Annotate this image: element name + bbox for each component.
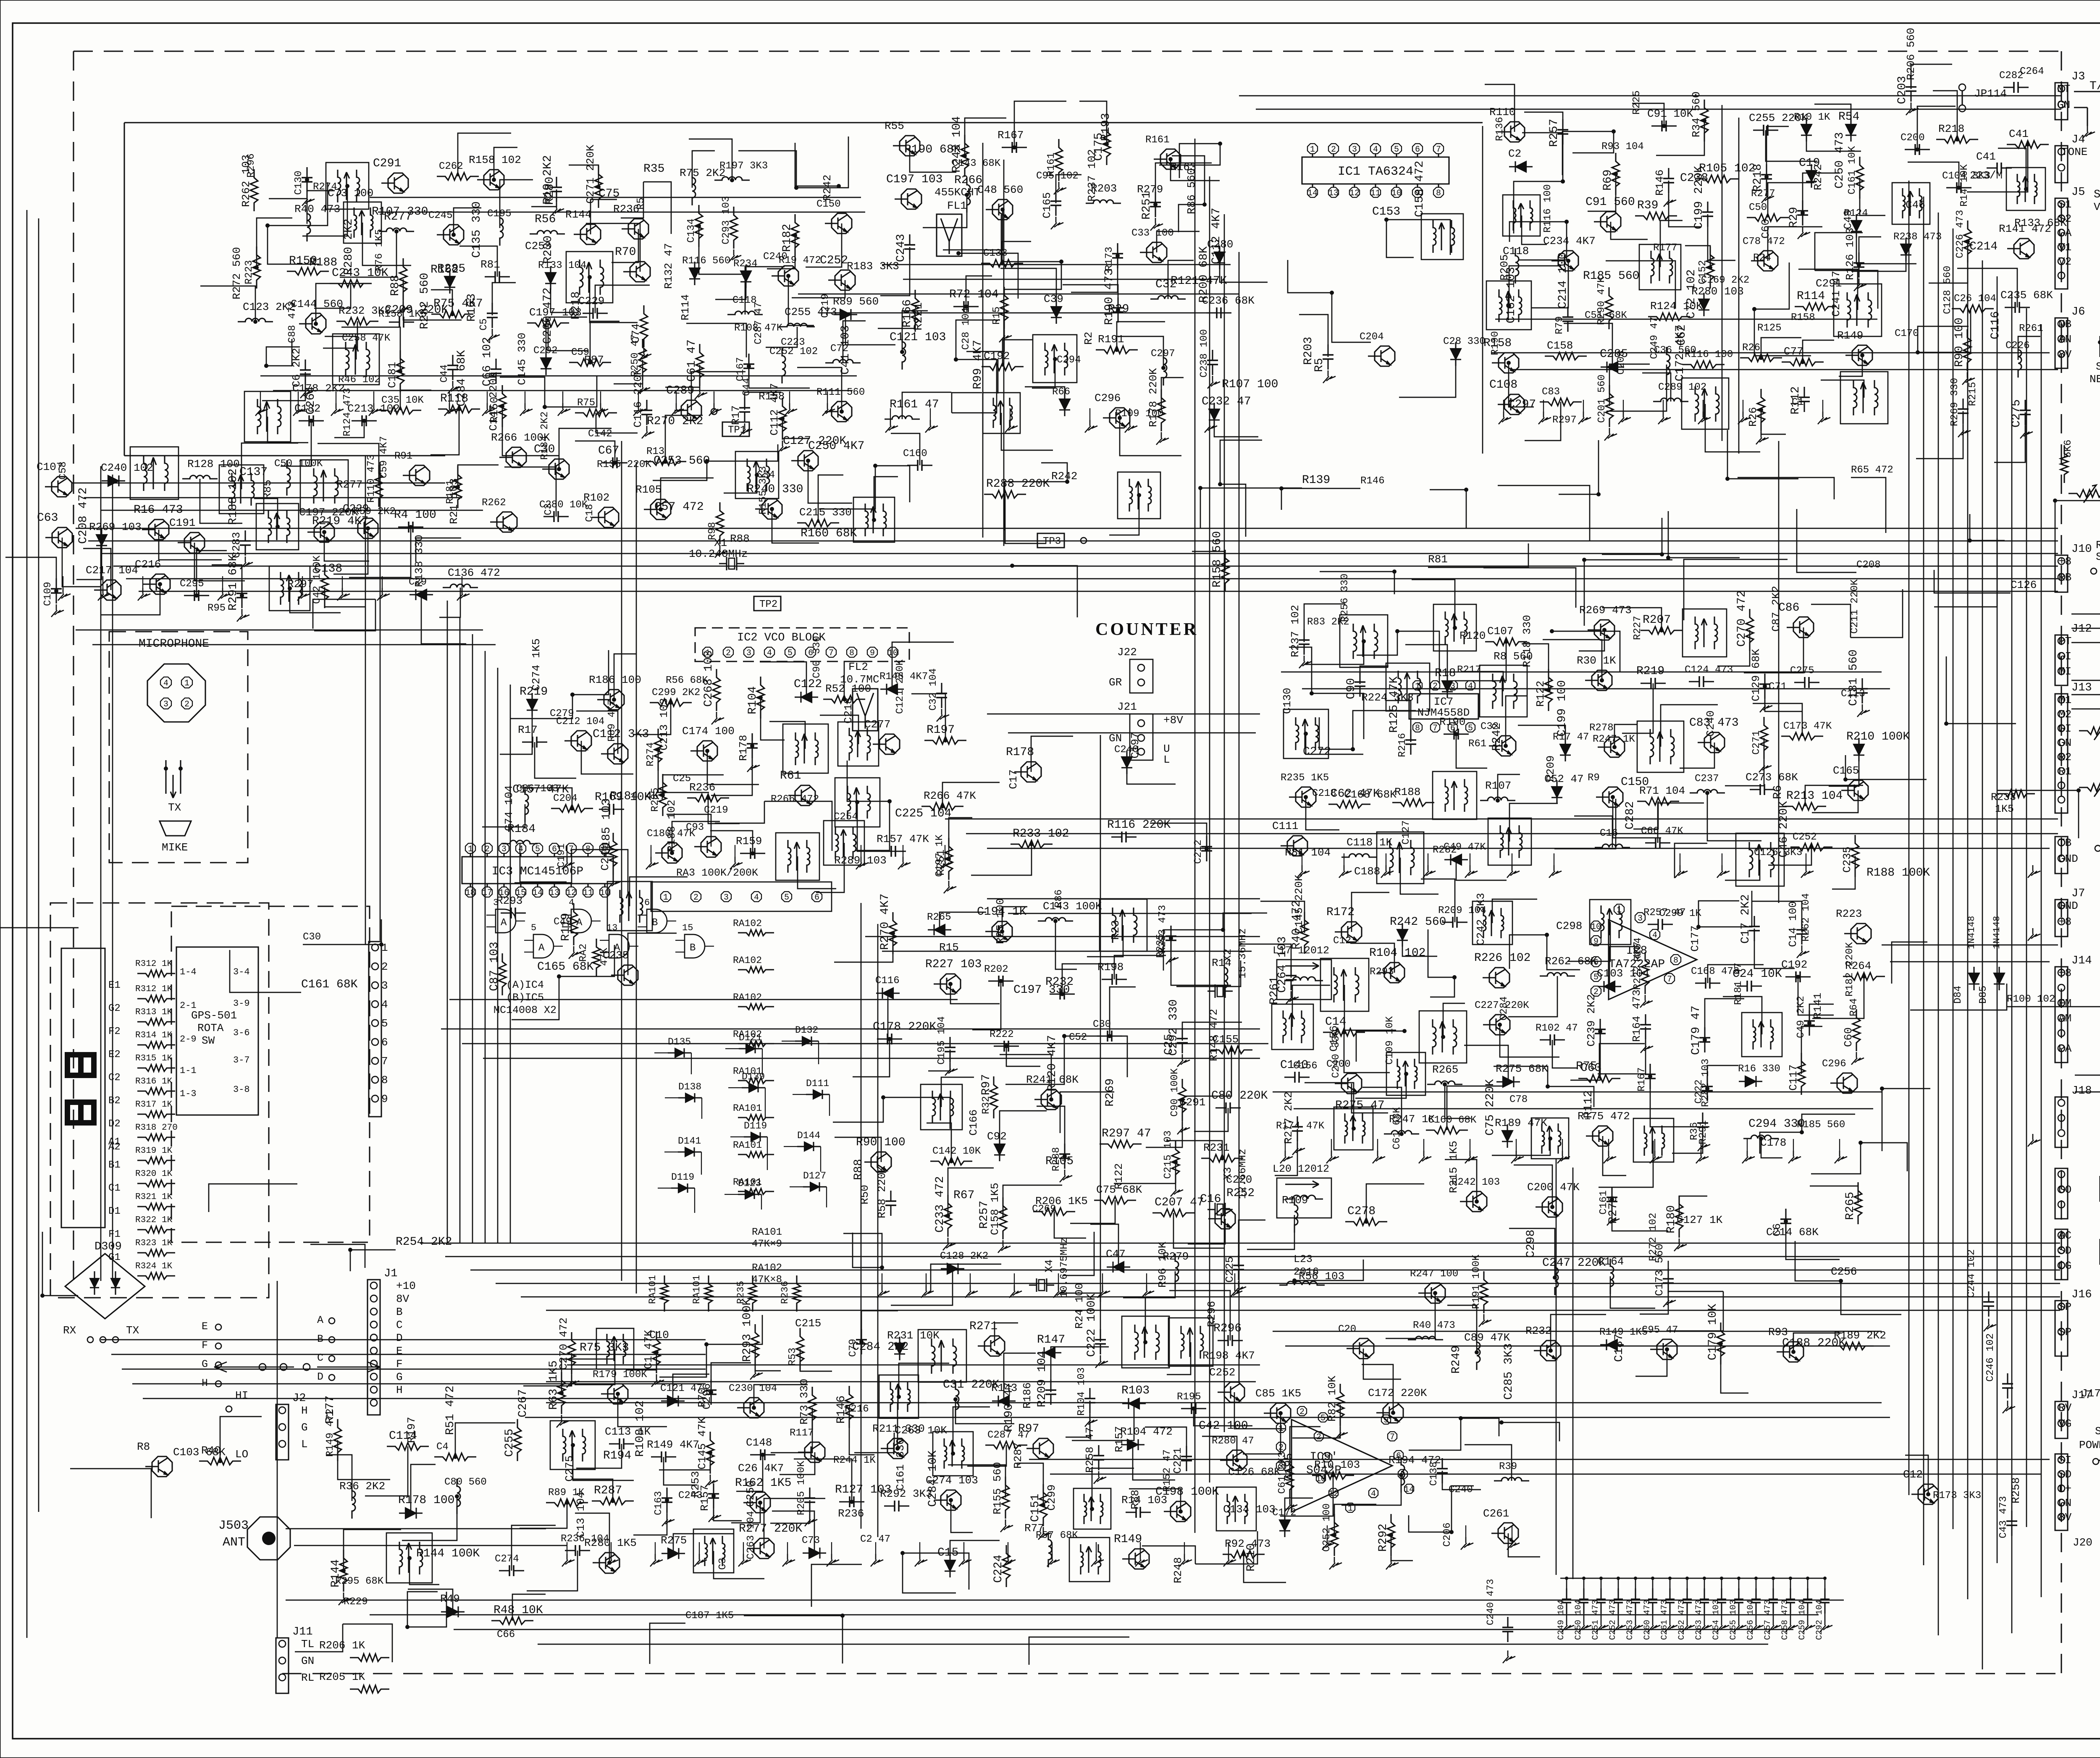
connector J1 lower	[367, 1280, 380, 1415]
pcb outline dashed frame	[73, 50, 2061, 52]
svg-text:R54: R54	[1838, 110, 1859, 123]
svg-text:C112 4K7: C112 4K7	[768, 383, 781, 436]
svg-text:R26: R26	[1742, 342, 1760, 354]
svg-text:3-4: 3-4	[233, 967, 250, 977]
svg-text:C191: C191	[169, 517, 195, 529]
svg-text:C52 47: C52 47	[1544, 773, 1584, 785]
svg-text:C282: C282	[1999, 70, 2024, 81]
svg-text:C78 472: C78 472	[1743, 236, 1785, 247]
svg-text:C158 472: C158 472	[1413, 161, 1426, 217]
svg-text:3: 3	[1638, 914, 1643, 924]
svg-text:R173 3K3: R173 3K3	[1933, 1490, 1981, 1501]
svg-text:C213 103: C213 103	[658, 698, 670, 750]
svg-text:C252 473: C252 473	[1608, 1600, 1618, 1640]
svg-text:C165 68K: C165 68K	[537, 960, 594, 973]
svg-text:C170: C170	[1895, 328, 1919, 339]
svg-text:C128 560: C128 560	[1942, 266, 1953, 314]
svg-text:C158: C158	[1547, 339, 1573, 352]
svg-text:C179 10K: C179 10K	[1706, 1304, 1719, 1360]
svg-text:C28 330: C28 330	[1443, 336, 1486, 347]
svg-text:C179 47: C179 47	[1690, 1005, 1703, 1055]
svg-text:C204: C204	[1360, 331, 1384, 343]
svg-text:J4: J4	[2071, 134, 2085, 146]
svg-text:R293 100K: R293 100K	[741, 1299, 754, 1362]
svg-text:R280 103: R280 103	[1691, 285, 1744, 298]
svg-text:D: D	[396, 1332, 403, 1344]
svg-text:R205 1K: R205 1K	[319, 1671, 365, 1683]
svg-text:8V: 8V	[396, 1293, 409, 1305]
svg-text:R242 560: R242 560	[1390, 916, 1446, 929]
ra3 pin row	[651, 882, 832, 911]
svg-text:C138: C138	[1428, 1462, 1440, 1486]
svg-text:R183 3K3: R183 3K3	[847, 260, 899, 273]
svg-text:R98: R98	[707, 522, 718, 540]
svg-text:10: 10	[888, 648, 898, 658]
svg-text:C207 47: C207 47	[1155, 1196, 1204, 1209]
svg-text:A: A	[576, 917, 583, 929]
connector J13 mike rf gain	[2055, 694, 2068, 813]
svg-text:R158 102: R158 102	[469, 154, 521, 166]
svg-text:D132: D132	[795, 1025, 818, 1036]
svg-text:R63 1K5: R63 1K5	[547, 1360, 560, 1410]
svg-text:2: 2	[1316, 1433, 1321, 1442]
svg-text:C93: C93	[686, 822, 704, 833]
svg-text:C59 4K7: C59 4K7	[378, 436, 390, 478]
svg-text:E: E	[396, 1345, 403, 1357]
svg-text:R312 1K: R312 1K	[135, 984, 173, 994]
svg-text:C29: C29	[409, 577, 427, 588]
svg-text:C252: C252	[1209, 1366, 1235, 1379]
svg-text:R271: R271	[969, 1320, 997, 1333]
svg-text:GPS-501: GPS-501	[191, 1009, 237, 1022]
svg-text:C118 1K: C118 1K	[1347, 836, 1393, 849]
svg-text:R229: R229	[344, 1596, 368, 1608]
svg-text:A: A	[614, 942, 620, 954]
svg-text:R144: R144	[565, 208, 591, 221]
svg-text:C181 560: C181 560	[1847, 650, 1860, 706]
svg-text:C32: C32	[1155, 278, 1176, 291]
svg-text:C214 100: C214 100	[1557, 252, 1570, 309]
svg-text:R285: R285	[437, 262, 465, 276]
svg-text:C32: C32	[1480, 721, 1499, 732]
svg-text:J6: J6	[2071, 306, 2085, 318]
connector J6 NB ANL	[2055, 318, 2068, 368]
svg-text:R236: R236	[613, 203, 639, 215]
svg-text:R320 1K: R320 1K	[135, 1169, 173, 1179]
connector J14 FM AM PA	[2055, 967, 2068, 1063]
svg-text:C299: C299	[1045, 1485, 1058, 1511]
svg-text:5: 5	[381, 1017, 388, 1030]
svg-text:D127: D127	[803, 1170, 826, 1181]
svg-text:C77: C77	[1784, 345, 1803, 358]
svg-text:6: 6	[814, 893, 819, 903]
svg-text:12: 12	[1349, 189, 1360, 198]
svg-text:R292 3K3: R292 3K3	[880, 1488, 932, 1500]
svg-text:R269 103: R269 103	[89, 521, 142, 533]
connector EXT SP jack	[2055, 1229, 2068, 1280]
svg-text:1: 1	[184, 679, 189, 688]
svg-text:10: 10	[1391, 189, 1402, 198]
svg-text:C187 1K5: C187 1K5	[685, 1610, 734, 1622]
svg-text:7: 7	[1436, 145, 1441, 155]
EPT interconnect wires	[2075, 1032, 2100, 1142]
svg-text:5: 5	[1468, 724, 1473, 733]
svg-text:R159: R159	[736, 835, 762, 848]
svg-text:C67: C67	[598, 444, 619, 457]
svg-text:C249 104: C249 104	[1557, 1600, 1566, 1640]
svg-text:C232 47: C232 47	[1202, 395, 1251, 408]
svg-text:R144 100K: R144 100K	[416, 1547, 480, 1560]
circuit fill block 1181	[1903, 1455, 2022, 1538]
circuit fill block 124	[650, 1610, 1129, 1665]
svg-text:3: 3	[1352, 145, 1357, 155]
7seg display dashed enclosure	[50, 903, 269, 1298]
svg-text:C240 473: C240 473	[1485, 1579, 1496, 1625]
wire buses extra light bands	[76, 197, 1890, 1382]
svg-text:1N4148: 1N4148	[1992, 916, 2002, 949]
svg-text:FL2: FL2	[848, 661, 868, 673]
svg-text:R313 1K: R313 1K	[135, 1008, 173, 1017]
svg-text:C39: C39	[1044, 293, 1063, 305]
svg-text:R238 473: R238 473	[1893, 231, 1942, 243]
svg-text:R50: R50	[858, 1185, 871, 1204]
svg-text:R162 1K5: R162 1K5	[735, 1477, 791, 1490]
svg-text:15: 15	[682, 923, 693, 933]
svg-text:C60: C60	[1842, 1027, 1855, 1047]
svg-text:D119: D119	[671, 1172, 694, 1183]
svg-text:R125: R125	[1757, 323, 1782, 334]
svg-text:R213 104: R213 104	[1786, 790, 1843, 803]
svg-text:C155: C155	[1213, 1033, 1239, 1046]
svg-text:R321 1K: R321 1K	[135, 1192, 173, 1202]
svg-text:2: 2	[1433, 682, 1438, 691]
svg-text:R66: R66	[1052, 386, 1070, 398]
wire bus lower band	[286, 1600, 1844, 1644]
svg-text:C: C	[396, 1319, 403, 1331]
svg-text:R280 1K5: R280 1K5	[584, 1537, 637, 1549]
svg-text:C144 560: C144 560	[291, 298, 343, 310]
svg-text:GN: GN	[2058, 1497, 2071, 1509]
svg-text:C13 104: C13 104	[575, 1492, 587, 1538]
svg-text:5: 5	[1320, 1414, 1326, 1423]
svg-text:2: 2	[485, 845, 490, 854]
svg-text:ROTA: ROTA	[197, 1022, 224, 1034]
svg-text:SP: SP	[2058, 1326, 2071, 1338]
svg-text:C244 102: C244 102	[1966, 1249, 1977, 1298]
svg-text:R40 472: R40 472	[1290, 900, 1303, 950]
svg-text:R242 103: R242 103	[1452, 1177, 1500, 1188]
svg-text:R40: R40	[201, 1444, 221, 1457]
svg-text:R16 473: R16 473	[134, 504, 183, 517]
svg-text:C173 560: C173 560	[1653, 1244, 1666, 1296]
svg-text:3: 3	[724, 893, 729, 903]
svg-text:J18: J18	[2071, 1085, 2092, 1097]
svg-text:SI: SI	[2058, 1454, 2071, 1467]
svg-text:C274 1K5: C274 1K5	[530, 638, 543, 691]
svg-text:L17 12012: L17 12012	[1273, 945, 1329, 957]
svg-text:R227: R227	[1632, 616, 1643, 640]
circuit fill block 102	[878, 101, 1278, 456]
svg-text:C221: C221	[1171, 1448, 1184, 1474]
svg-text:R104 103: R104 103	[1076, 1367, 1087, 1416]
svg-text:X3: X3	[1221, 1167, 1234, 1180]
svg-text:R141: R141	[1811, 993, 1824, 1019]
svg-text:C214: C214	[1969, 240, 1998, 253]
svg-text:C116 220K: C116 220K	[632, 368, 644, 428]
connector J20	[2055, 1454, 2068, 1530]
svg-text:R163: R163	[465, 294, 478, 322]
svg-text:D1: D1	[108, 1206, 121, 1217]
svg-text:TB: TB	[2058, 837, 2071, 849]
svg-text:RB: RB	[2058, 571, 2071, 584]
svg-text:C71: C71	[1769, 681, 1787, 693]
svg-text:C246 102: C246 102	[1985, 1333, 1996, 1382]
svg-text:C225: C225	[1223, 1257, 1236, 1283]
svg-text:C151: C151	[1029, 1494, 1042, 1522]
svg-text:R172: R172	[1326, 906, 1354, 919]
svg-text:R319 1K: R319 1K	[135, 1146, 173, 1156]
svg-text:R86 560: R86 560	[1185, 168, 1198, 214]
svg-text:C20: C20	[1338, 1324, 1356, 1335]
svg-text:RA2: RA2	[578, 944, 589, 962]
svg-text:R110: R110	[1489, 106, 1515, 118]
svg-text:C250 473: C250 473	[1833, 132, 1846, 189]
svg-text:R61: R61	[1468, 738, 1486, 750]
svg-text:J22: J22	[1117, 646, 1137, 659]
svg-text:R10 103: R10 103	[1314, 1459, 1360, 1471]
svg-text:C172 220K: C172 220K	[1368, 1387, 1427, 1399]
svg-text:R5: R5	[1313, 358, 1326, 372]
svg-text:1-3: 1-3	[180, 1089, 197, 1099]
circuit fill block 125	[0, 926, 151, 1518]
svg-text:R179 100K: R179 100K	[593, 1369, 647, 1380]
svg-text:C191: C191	[556, 843, 567, 868]
svg-text:C15: C15	[937, 1546, 958, 1559]
svg-text:SD: SD	[2058, 1244, 2071, 1257]
svg-text:C114: C114	[389, 1430, 417, 1443]
svg-text:R70: R70	[615, 246, 636, 259]
svg-text:C230 104: C230 104	[729, 1383, 777, 1394]
svg-text:R65 472: R65 472	[1851, 464, 1893, 476]
svg-text:10.6975MHz: 10.6975MHz	[1059, 1237, 1070, 1298]
svg-text:1-1: 1-1	[180, 1065, 197, 1076]
connector J5 SQUELCH VOLUME	[2055, 198, 2068, 289]
svg-text:R178: R178	[737, 735, 750, 761]
svg-text:R97: R97	[1018, 1422, 1039, 1435]
mike TX switch	[165, 760, 166, 794]
circuit fill block 120	[209, 919, 452, 1271]
switch arrows near J1	[214, 1362, 294, 1372]
svg-text:C44: C44	[741, 378, 753, 396]
svg-text:47K×8: 47K×8	[752, 1274, 782, 1286]
svg-text:C298: C298	[1525, 1230, 1538, 1258]
svg-text:B: B	[317, 1333, 323, 1345]
svg-text:R257 47: R257 47	[1643, 907, 1686, 918]
svg-text:C73 100: C73 100	[328, 187, 373, 199]
svg-text:RV: RV	[2058, 1401, 2072, 1414]
svg-text:R236: R236	[689, 781, 715, 794]
svg-text:R9: R9	[1588, 772, 1600, 784]
svg-text:C256: C256	[1831, 1265, 1857, 1278]
svg-text:C91 560: C91 560	[1585, 196, 1635, 209]
svg-text:47K×9: 47K×9	[752, 1238, 782, 1250]
svg-text:C66: C66	[497, 1629, 515, 1640]
svg-text:R21 103: R21 103	[448, 478, 460, 524]
svg-text:R222 4K7: R222 4K7	[1632, 942, 1643, 990]
svg-text:R248: R248	[1172, 1557, 1184, 1583]
svg-text:C201 560: C201 560	[1596, 375, 1608, 423]
svg-text:F: F	[396, 1358, 403, 1370]
svg-text:J11: J11	[292, 1626, 313, 1638]
svg-text:13: 13	[606, 923, 617, 933]
svg-text:R217: R217	[1457, 664, 1481, 676]
svg-text:C73: C73	[802, 1535, 820, 1546]
svg-text:455KCHT: 455KCHT	[934, 186, 980, 199]
svg-text:C237: C237	[1695, 773, 1719, 785]
svg-text:C145 47K: C145 47K	[696, 1417, 709, 1469]
svg-text:C297: C297	[1151, 348, 1175, 359]
svg-text:3: 3	[493, 897, 499, 908]
svg-text:+10: +10	[396, 1280, 416, 1292]
svg-text:3-7: 3-7	[233, 1055, 250, 1065]
svg-text:C299 2K2: C299 2K2	[652, 687, 700, 698]
svg-text:C222: C222	[1693, 1079, 1705, 1104]
svg-text:R81: R81	[480, 258, 500, 271]
svg-text:R.B: R.B	[2096, 539, 2100, 551]
svg-text:R4 100: R4 100	[394, 509, 436, 522]
svg-text:R117: R117	[790, 1427, 814, 1439]
wire buses assorted verticals	[277, 105, 1779, 1638]
svg-text:R67: R67	[953, 1189, 974, 1202]
svg-text:F1: F1	[108, 1229, 121, 1240]
svg-text:GI: GI	[2058, 650, 2071, 663]
svg-text:R88: R88	[730, 533, 750, 545]
svg-text:R202: R202	[984, 964, 1008, 975]
svg-text:R206 560: R206 560	[1905, 28, 1917, 80]
svg-text:C95 102: C95 102	[1036, 171, 1079, 182]
svg-text:R265: R265	[1432, 1063, 1458, 1076]
svg-text:C142 10K: C142 10K	[932, 1146, 981, 1157]
svg-text:C90 100K: C90 100K	[1169, 1068, 1181, 1117]
svg-text:C275: C275	[1790, 665, 1814, 677]
svg-text:R287: R287	[1012, 1443, 1024, 1469]
svg-text:C229: C229	[578, 295, 604, 307]
svg-text:R105: R105	[635, 483, 661, 496]
svg-text:C124 473: C124 473	[1685, 664, 1733, 676]
svg-text:R312 1K: R312 1K	[135, 959, 173, 969]
svg-text:2: 2	[726, 648, 731, 658]
svg-text:R314 1K: R314 1K	[135, 1031, 173, 1040]
svg-text:C79: C79	[848, 1339, 859, 1357]
svg-text:8: 8	[1415, 724, 1420, 733]
svg-text:C289: C289	[666, 384, 694, 397]
svg-text:C52: C52	[1069, 1032, 1087, 1043]
svg-text:R99 4K7: R99 4K7	[971, 340, 984, 389]
svg-text:R147: R147	[1037, 1333, 1065, 1346]
svg-text:RA102: RA102	[733, 918, 762, 929]
svg-text:11: 11	[1370, 189, 1381, 198]
svg-text:8: 8	[849, 648, 854, 658]
svg-text:R36: R36	[1689, 1122, 1700, 1140]
svg-text:J16: J16	[2071, 1288, 2092, 1301]
svg-text:J7: J7	[2071, 887, 2085, 900]
svg-text:R197: R197	[927, 724, 955, 737]
svg-text:C280 10K: C280 10K	[539, 499, 588, 511]
wire buses assorted horizontals	[71, 294, 2058, 1545]
svg-text:C261: C261	[1483, 1507, 1509, 1520]
svg-text:R70: R70	[696, 1388, 709, 1407]
test point TP3	[1037, 533, 1064, 548]
svg-text:R88: R88	[389, 275, 402, 296]
svg-text:3-9: 3-9	[233, 998, 250, 1009]
svg-text:R275 68K: R275 68K	[1496, 1063, 1548, 1075]
svg-text:4: 4	[518, 845, 523, 854]
svg-text:R48 10K: R48 10K	[493, 1604, 543, 1617]
svg-text:J14: J14	[2071, 955, 2092, 967]
svg-text:R219: R219	[520, 685, 548, 698]
svg-text:R76 1K5: R76 1K5	[374, 229, 385, 271]
svg-text:C235 68K: C235 68K	[2000, 289, 2053, 302]
svg-text:C87 103: C87 103	[488, 942, 501, 991]
circuit fill block 121	[488, 877, 688, 1020]
svg-text:C271 220K: C271 220K	[584, 144, 597, 204]
circuit fill block 101	[200, 133, 899, 466]
svg-text:J5: J5	[2071, 186, 2085, 199]
svg-text:R144: R144	[329, 1559, 342, 1587]
svg-text:R324 1K: R324 1K	[135, 1262, 173, 1271]
svg-text:RA102: RA102	[733, 992, 762, 1003]
svg-text:R105 102: R105 102	[1699, 162, 1755, 175]
svg-text:C204: C204	[553, 793, 577, 804]
svg-text:C292 330: C292 330	[1167, 1000, 1180, 1056]
svg-text:C130: C130	[1281, 688, 1294, 714]
svg-text:C195 104: C195 104	[936, 1016, 948, 1065]
svg-text:C150: C150	[816, 199, 841, 210]
svg-text:R102 47: R102 47	[1536, 1023, 1578, 1034]
svg-text:C18: C18	[584, 504, 596, 522]
svg-text:2-1: 2-1	[180, 1000, 197, 1011]
svg-text:3: 3	[501, 845, 507, 854]
svg-text:TX: TX	[168, 801, 181, 814]
svg-text:R95: R95	[207, 603, 226, 614]
svg-text:R161: R161	[1046, 152, 1057, 177]
svg-text:R218: R218	[1938, 123, 1964, 135]
svg-text:C4: C4	[436, 1441, 449, 1453]
svg-text:GN: GN	[2058, 737, 2071, 749]
svg-text:R36 2K2: R36 2K2	[339, 1480, 385, 1493]
svg-text:C251 473: C251 473	[1591, 1600, 1601, 1640]
svg-text:10.7MC: 10.7MC	[840, 673, 879, 686]
svg-text:R251: R251	[1140, 192, 1153, 220]
svg-text:RA102: RA102	[733, 955, 762, 966]
circuit fill block 119	[2053, 420, 2100, 556]
svg-text:C272: C272	[1303, 745, 1331, 758]
svg-text:C122: C122	[794, 678, 822, 691]
svg-text:C130: C130	[293, 171, 304, 195]
svg-text:G: G	[202, 1358, 208, 1370]
svg-text:R249: R249	[1450, 1346, 1463, 1374]
svg-text:C75 68K: C75 68K	[1096, 1183, 1142, 1196]
svg-text:R139: R139	[1302, 474, 1330, 487]
svg-text:L: L	[1163, 753, 1170, 766]
svg-text:C203: C203	[1896, 76, 1909, 104]
svg-text:8V: 8V	[2058, 348, 2072, 361]
svg-text:R232: R232	[1525, 1325, 1551, 1337]
svg-text:C48 560: C48 560	[977, 184, 1023, 196]
svg-text:S501: S501	[2096, 360, 2100, 373]
svg-text:2: 2	[693, 893, 698, 903]
svg-text:R81: R81	[1428, 553, 1448, 566]
